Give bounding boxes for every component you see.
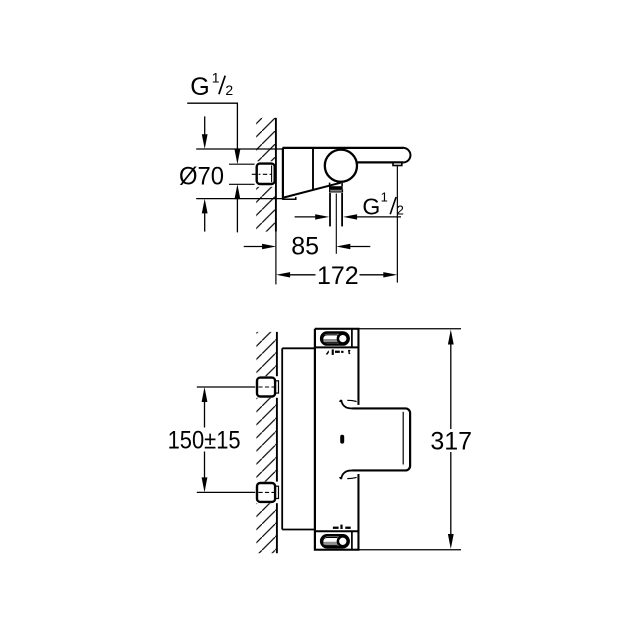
dimension 85: right arrow (336, 244, 370, 249)
top handle slot (321, 333, 348, 345)
dimension 317 top extension line (357, 328, 461, 330)
top cap bottom line (315, 346, 359, 348)
lower S-union nut (257, 483, 275, 502)
dimension G1/2 hose: left arrow (295, 214, 330, 219)
upper S-union neck (275, 381, 279, 393)
spout S-curve top (341, 400, 363, 408)
dimension Ø70 bottom extension line (196, 198, 283, 200)
shower hose nut lower band (330, 190, 343, 192)
dimension 150 lower arrow (202, 452, 208, 493)
union nut G1/2 (257, 164, 275, 184)
svg-text:150±15: 150±15 (168, 427, 241, 455)
centre marker dot (340, 435, 344, 444)
shower hose pipe right edge (341, 193, 343, 227)
body outline (front view) (315, 329, 359, 550)
escutcheon right face (312, 149, 314, 190)
body white fill (316, 330, 357, 549)
neck below handle (330, 183, 343, 187)
svg-text:85: 85 (291, 233, 319, 261)
thermostat handle circle (325, 150, 357, 182)
bottom scale ticks (333, 525, 351, 529)
upper S-union nut (257, 378, 275, 397)
spout S-curve bottom echo (347, 477, 356, 478)
spout bottom edge (357, 161, 404, 163)
union nut inner edge (271, 165, 273, 182)
shower hose nut block (329, 186, 343, 189)
spout rounded end (403, 148, 410, 163)
spout S-curve top echo (347, 400, 356, 401)
top handle slot shading (323, 339, 340, 342)
white clearance around union nut (255, 161, 275, 187)
dimension Ø70 top extension line (196, 148, 283, 150)
svg-text:2: 2 (397, 202, 404, 217)
dimension Ø70 lower arrow (202, 199, 208, 232)
dimension 172: right arrow (360, 272, 398, 277)
backplate bottom edge (282, 529, 315, 531)
dimension Ø70 upper arrow (202, 116, 208, 149)
label G 1/2 (hose outlet) (362, 190, 404, 220)
dimension 317 bottom arrow (448, 452, 454, 549)
white clearance around upper S-union (255, 376, 279, 398)
temperature scale ticks (326, 349, 351, 355)
dimension G1/2 hose: right arrow (343, 214, 401, 219)
bottom handle slot inner rim (323, 538, 341, 546)
bottom handle slot (321, 535, 348, 547)
spout front face outline (353, 408, 411, 470)
escutcheon bottom slant (284, 183, 341, 198)
spout inner highlight line (402, 412, 404, 465)
wall face line (top view) (275, 118, 277, 232)
bottom cap top line (315, 530, 359, 532)
svg-text:317: 317 (430, 428, 472, 456)
white clearance around lower S-union (255, 482, 279, 504)
dimension 150 lower extension line (197, 491, 258, 493)
top handle button (338, 334, 348, 344)
aerator nub (393, 163, 402, 166)
union nut upper extension line (229, 163, 258, 165)
wall face line (front view) (276, 332, 278, 553)
union nut lower extension line (229, 183, 258, 185)
leader line G 1/2 (wall union) (187, 103, 237, 150)
union nut lower arrow (235, 184, 241, 232)
dimension 150 upper extension line (197, 386, 258, 388)
escutcheon bottom foot (282, 197, 296, 199)
upper S-union dashed centerline (258, 386, 278, 388)
union nut dashed centerline (252, 173, 276, 175)
bottom handle button (338, 536, 348, 546)
shower hose pipe centerline (335, 194, 337, 254)
spout outlet extension line (396, 166, 398, 283)
wall hatching (front view) (256, 332, 276, 553)
backplate top edge (282, 347, 315, 349)
bottom handle slot shading (323, 542, 340, 545)
svg-text:G: G (190, 73, 209, 101)
spout front face fill (353, 408, 411, 470)
dimension 150 upper arrow (202, 387, 208, 428)
top cap divider (351, 329, 353, 348)
body top edge (282, 147, 404, 149)
label G 1/2 (wall union) (190, 69, 233, 101)
union nut upper arrow (235, 149, 241, 164)
top handle slot inner rim (323, 335, 341, 343)
svg-text:1: 1 (381, 190, 388, 205)
dimension 317 bottom extension line (357, 549, 461, 551)
svg-text:172: 172 (317, 262, 359, 290)
escutcheon left edge (282, 148, 284, 199)
shower hose pipe left edge (329, 193, 331, 227)
svg-text:G: G (362, 193, 380, 219)
svg-text:Ø70: Ø70 (179, 162, 224, 190)
dimension 85: left arrow (244, 244, 276, 249)
wall hatching (top view) (256, 118, 276, 232)
dimension 317 top arrow (448, 330, 454, 430)
svg-text:1: 1 (212, 69, 220, 85)
lower S-union neck (275, 486, 279, 498)
bottom cap divider (351, 531, 353, 550)
dimension 172: left arrow (276, 272, 315, 277)
svg-text:2: 2 (225, 82, 233, 98)
spout S-curve bottom (341, 470, 363, 478)
wall face extension line down to 172 dimension (275, 232, 277, 285)
backplate left edge (281, 348, 283, 529)
lower S-union dashed centerline (258, 491, 278, 493)
